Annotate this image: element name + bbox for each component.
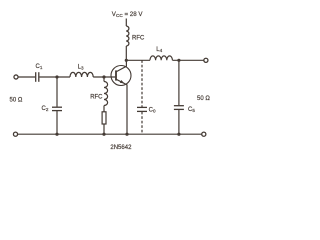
wire C1 to L3 [40,76,71,78]
node: output / C5 tap [177,59,180,62]
output terminal (top right) [204,58,208,62]
svg-text:RFC: RFC [132,36,145,42]
wire base node down [103,77,105,82]
wire coil to resistor [103,106,105,112]
collector lead [116,60,126,72]
node: C2 tap [55,75,58,78]
node: base RFC tap [102,75,105,78]
svg-text:RFC: RFC [90,95,103,101]
resistor (base bleed) [102,112,106,124]
wire L3 to base [93,76,115,78]
svg-text:50 Ω: 50 Ω [197,96,210,102]
capacitor C0 [137,106,147,108]
inductor L3 [70,72,93,77]
input terminal (top left) [14,75,18,79]
wire input to C1 [18,76,35,78]
svg-text:50 Ω: 50 Ω [10,97,23,103]
top rail to L4 [126,59,150,61]
ground terminal right [202,132,206,136]
node: collector / rail junction [125,59,128,62]
capacitor C1 [35,72,37,82]
emitter arrow [120,80,124,83]
ground terminal left [13,132,17,136]
node: C5 ground [177,133,180,136]
wire C5 upper [178,60,180,105]
dashed line C0 upper [141,60,143,107]
wire C2 lower [56,111,58,134]
wire C2 upper [56,77,58,107]
wire resistor to ground rail [103,124,105,134]
svg-text:C2: C2 [42,106,49,112]
base RFC coil [104,82,108,106]
inductor L4 [150,56,172,60]
svg-text:C5: C5 [188,107,195,113]
ground rail [18,133,202,135]
Vcc supply stub [125,19,127,27]
svg-text:2N5642: 2N5642 [110,145,132,151]
emitter lead [116,79,127,134]
wire coil to collector node [125,46,127,60]
node: resistor ground [102,133,105,136]
capacitor C2 [52,106,62,108]
capacitor C5 [174,105,184,107]
wire C5 lower [178,110,180,134]
svg-text:C0: C0 [149,107,156,113]
svg-text:C1: C1 [36,64,43,70]
base bar [115,70,117,80]
wire L4 to output node [172,59,203,61]
supply RFC coil [126,26,129,46]
node: C2 ground [55,133,58,136]
svg-text:L4: L4 [156,47,162,53]
node: emitter ground [125,133,128,136]
svg-text:L3: L3 [78,64,84,70]
transistor Q1 circle [111,66,131,86]
dashed line C0 lower [141,112,143,134]
svg-text:VCC = 28 V: VCC = 28 V [112,11,144,18]
